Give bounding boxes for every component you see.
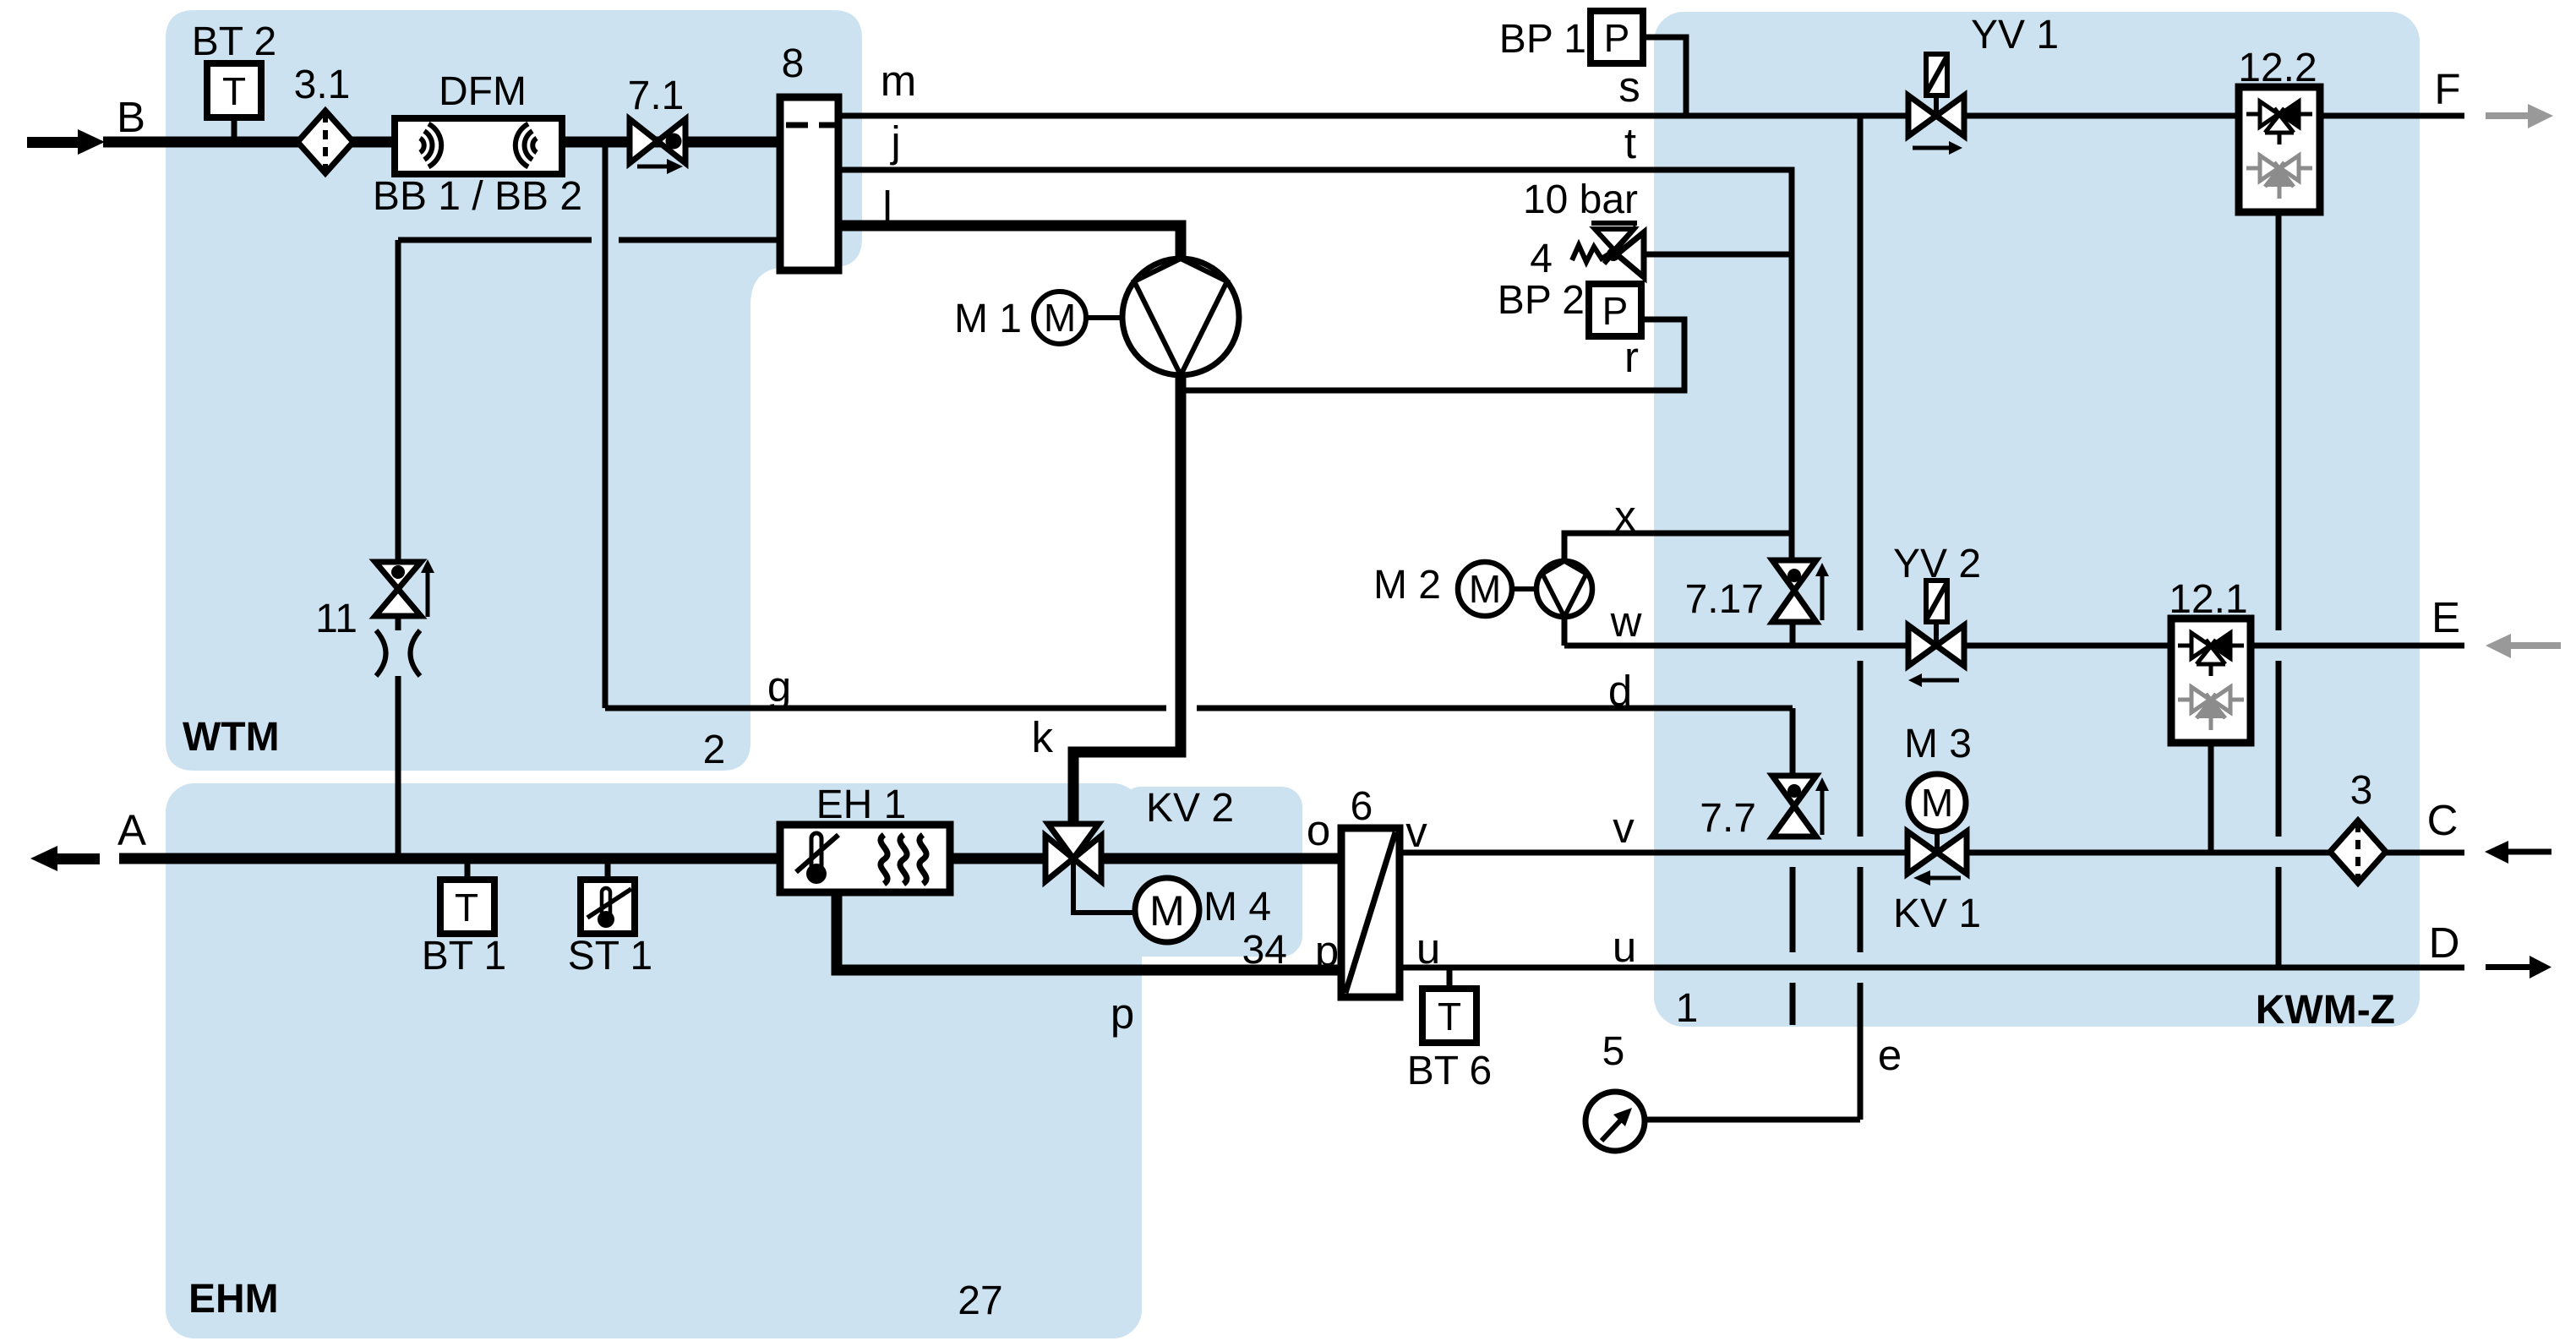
svg-text:w: w [1610,597,1642,646]
svg-text:M: M [1149,887,1185,935]
svg-text:8: 8 [782,41,805,86]
svg-text:A: A [117,806,146,854]
svg-text:6: 6 [1351,784,1373,829]
svg-text:s: s [1618,63,1640,111]
svg-text:u: u [1416,924,1440,973]
svg-text:EHM: EHM [188,1277,279,1322]
svg-text:2: 2 [703,728,726,772]
svg-text:1: 1 [1676,986,1699,1031]
svg-text:P: P [1604,16,1630,60]
svg-text:27: 27 [958,1278,1002,1323]
svg-text:d: d [1608,667,1632,715]
svg-text:BP 1: BP 1 [1499,17,1586,62]
svg-text:x: x [1614,492,1636,540]
svg-text:M 4: M 4 [1203,885,1271,929]
svg-text:p: p [1315,927,1339,975]
svg-text:T: T [455,886,478,929]
svg-text:o: o [1307,806,1330,854]
svg-text:l: l [882,183,892,231]
svg-text:M 3: M 3 [1904,722,1972,766]
svg-text:KV 2: KV 2 [1146,786,1234,831]
svg-text:ST 1: ST 1 [568,934,653,978]
svg-text:KWM-Z: KWM-Z [2256,988,2395,1033]
svg-text:m: m [881,57,916,105]
svg-text:12.2: 12.2 [2238,46,2317,90]
svg-text:BT 2: BT 2 [192,19,277,64]
svg-text:DFM: DFM [439,69,527,114]
svg-text:r: r [1624,333,1639,381]
svg-text:BT 6: BT 6 [1407,1049,1493,1093]
svg-text:BP 2: BP 2 [1498,278,1585,323]
svg-text:7.1: 7.1 [628,74,685,118]
svg-text:YV 1: YV 1 [1971,13,2059,57]
svg-text:v: v [1405,808,1427,856]
svg-text:KV 1: KV 1 [1893,891,1981,936]
svg-text:F: F [2434,65,2460,113]
svg-text:4: 4 [1530,237,1553,281]
svg-text:YV 2: YV 2 [1893,542,1981,586]
svg-text:3.1: 3.1 [294,63,351,107]
svg-text:10 bar: 10 bar [1523,177,1638,222]
svg-text:j: j [889,117,900,166]
svg-text:BB 1 / BB 2: BB 1 / BB 2 [373,174,582,219]
svg-text:34: 34 [1242,928,1287,973]
svg-text:7.7: 7.7 [1700,796,1756,841]
svg-text:T: T [1438,995,1461,1038]
svg-text:M: M [1921,781,1953,825]
svg-text:E: E [2431,593,2460,641]
svg-text:M 1: M 1 [954,297,1022,341]
svg-text:B: B [117,93,145,141]
svg-text:WTM: WTM [183,715,280,760]
svg-text:P: P [1602,289,1629,333]
svg-text:C: C [2427,796,2459,844]
svg-text:D: D [2429,919,2460,967]
svg-text:k: k [1032,713,1054,761]
svg-text:EH 1: EH 1 [816,782,907,827]
svg-text:v: v [1613,804,1635,852]
svg-text:M: M [1469,567,1501,611]
svg-text:3: 3 [2350,768,2373,813]
svg-text:u: u [1613,923,1636,971]
svg-text:t: t [1624,119,1636,167]
svg-text:e: e [1878,1031,1902,1079]
svg-text:BT 1: BT 1 [422,934,507,978]
svg-text:p: p [1111,989,1134,1038]
svg-text:11: 11 [315,597,357,641]
svg-text:g: g [767,662,791,711]
svg-text:M 2: M 2 [1373,563,1441,608]
svg-text:5: 5 [1602,1029,1625,1074]
svg-text:7.17: 7.17 [1685,577,1764,622]
svg-text:M: M [1044,296,1076,340]
svg-text:12.1: 12.1 [2169,577,2247,622]
svg-text:T: T [222,69,246,113]
